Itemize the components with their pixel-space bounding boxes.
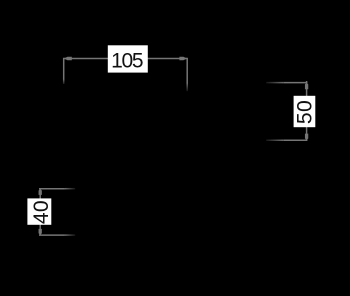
wire top extension line (faded tail) — [65, 188, 75, 190]
svg-text:40: 40 — [30, 200, 53, 224]
wire left extension line (faded tail) — [63, 80, 65, 85]
wire left extension line (bright part) — [63, 58, 65, 80]
svg-text:50: 50 — [294, 100, 317, 124]
wire top extension line (bright part) — [284, 82, 308, 84]
wire top extension line (faded tail) — [266, 82, 284, 84]
arrow down — [305, 134, 308, 141]
wire bottom extension line (bright part) — [39, 234, 65, 236]
label box 50 — [294, 96, 316, 127]
wire bottom extension line (faded tail) — [65, 234, 75, 236]
wire right extension line (bright part) — [186, 58, 188, 84]
wire bottom extension line (faded tail) — [266, 139, 284, 141]
label box 40 — [27, 198, 51, 224]
arrow up — [39, 189, 42, 195]
arrow right — [179, 57, 187, 60]
wire dimension line 40 — [39, 189, 41, 235]
arrow down — [39, 229, 42, 235]
wire right extension line (faded tail) — [186, 84, 188, 92]
label box 105 — [108, 45, 148, 72]
dimension 105 (top horizontal) — [64, 45, 188, 91]
svg-text:105: 105 — [111, 50, 143, 73]
arrow left — [64, 57, 72, 60]
wire top extension line (bright part) — [39, 188, 65, 190]
wire dimension line 50 — [306, 81, 308, 140]
arrow up — [305, 83, 308, 90]
wire dimension line 105 — [64, 58, 188, 60]
wire bottom extension line (bright part) — [284, 139, 308, 141]
dimension 40 (left vertical) — [27, 189, 75, 235]
dimension 50 (right vertical) — [266, 81, 317, 140]
